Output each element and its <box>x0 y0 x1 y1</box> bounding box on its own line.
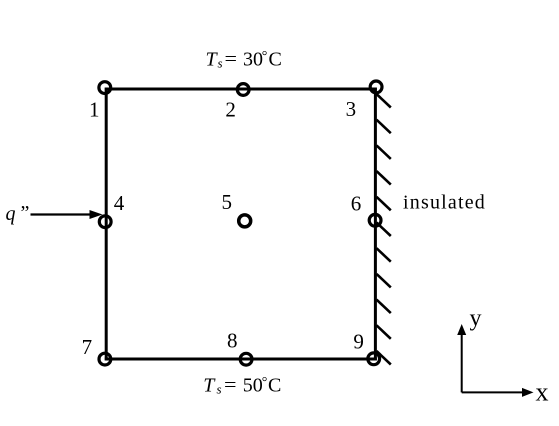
svg-text:3: 3 <box>346 97 357 121</box>
axis x <box>462 391 523 393</box>
node 4 <box>99 216 111 228</box>
node 2 <box>237 84 249 96</box>
svg-text:2: 2 <box>225 98 236 122</box>
svg-text:7: 7 <box>82 335 93 359</box>
node 3 <box>370 81 382 93</box>
wire right edge (insulated boundary) <box>374 88 377 361</box>
wire bottom edge (Ts=50C boundary) <box>105 358 377 361</box>
svg-text:insulated: insulated <box>403 192 486 214</box>
svg-text:1: 1 <box>89 98 100 122</box>
svg-text:4: 4 <box>114 191 125 215</box>
wire top edge (Ts=30C boundary) <box>105 88 377 91</box>
svg-text:5: 5 <box>221 190 232 214</box>
node 9 <box>368 353 380 365</box>
hatching insulated right side <box>377 94 391 365</box>
arrow q'' into node 4 <box>31 213 92 215</box>
node 5 <box>239 215 251 227</box>
svg-text:q: q <box>6 203 16 225</box>
node 6 <box>369 214 381 226</box>
svg-text:6: 6 <box>351 192 362 216</box>
node 7 <box>99 353 111 365</box>
node 1 <box>99 82 111 94</box>
axis y <box>461 332 463 392</box>
svg-text:y: y <box>470 306 482 332</box>
node 8 <box>240 353 252 365</box>
svg-text:9: 9 <box>353 330 364 354</box>
svg-text:”: ” <box>21 202 30 224</box>
svg-text:8: 8 <box>227 328 238 352</box>
svg-text:x: x <box>536 378 549 407</box>
wire left edge (q" boundary) <box>105 88 108 361</box>
